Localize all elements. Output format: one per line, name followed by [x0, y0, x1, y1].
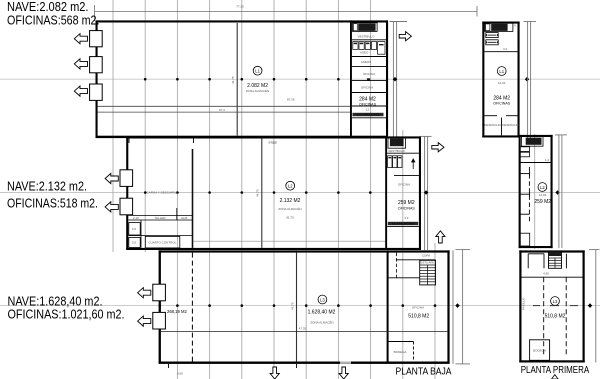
node L2 primera circle: [538, 183, 547, 192]
building L2 planta baja outline walls: [126, 136, 421, 250]
svg-text:91,75: 91,75: [286, 215, 294, 219]
svg-text:V.: V.: [514, 24, 517, 28]
svg-text:77,35: 77,35: [236, 5, 244, 9]
L2 primera bottom room: [520, 233, 530, 246]
svg-text:VESTÍBULO: VESTÍBULO: [358, 35, 376, 39]
L2 primera stair: [522, 137, 544, 147]
svg-text:ASEO: ASEO: [360, 51, 369, 55]
svg-text:259 M2: 259 M2: [534, 199, 551, 205]
L2 loading dock doors: [120, 170, 133, 215]
svg-text:87,35: 87,35: [269, 141, 277, 145]
L3 dashed mezzanine line: [191, 253, 193, 362]
L1 office aseo stalls: [353, 42, 385, 55]
svg-text:DESPACHO: DESPACHO: [484, 123, 501, 127]
L2 primera dashed corridor line: [528, 167, 530, 223]
svg-text:1.628,40 M2: 1.628,40 M2: [308, 310, 336, 316]
L3 grid dots: [159, 304, 437, 307]
L3 office floor line: [161, 331, 448, 333]
L2 primera partition: [520, 162, 553, 164]
svg-text:12: 12: [366, 108, 370, 112]
svg-text:OFICINAS:568 m2.: OFICINAS:568 m2.: [7, 13, 100, 28]
svg-text:67,3: 67,3: [219, 108, 225, 112]
L2 interior division line: [261, 139, 263, 248]
L3 interior division line: [296, 253, 298, 362]
L2 office stair: [388, 138, 406, 149]
arrow right band1: [399, 32, 411, 41]
node L3 circle label: [318, 295, 327, 304]
L3 right dimension line: [453, 250, 470, 364]
svg-text:L2: L2: [288, 184, 293, 189]
svg-text:OFICINAS:1.021,60 m2.: OFICINAS:1.021,60 m2.: [8, 307, 125, 322]
L2 office aseo stalls: [388, 156, 402, 168]
grid horizontal axis lines: [0, 79, 600, 305]
arrow up band2: [436, 231, 445, 243]
L1 primera partition: [484, 51, 517, 53]
L2 section line right: [421, 136, 432, 250]
L3 office dashed line: [395, 253, 397, 278]
svg-text:L1: L1: [255, 69, 260, 74]
L1 primera despachos: [484, 116, 517, 136]
svg-text:L1: L1: [499, 69, 504, 74]
L1 bottom wall ticks: [129, 136, 194, 143]
svg-text:L2: L2: [540, 185, 545, 190]
L1 grid dots: [144, 78, 340, 81]
L3 primera stair: [549, 251, 562, 268]
node L1 primera circle: [497, 67, 506, 76]
L1 section line right: [390, 22, 408, 139]
svg-text:PASILLO: PASILLO: [522, 297, 526, 310]
svg-text:14,04: 14,04: [539, 193, 547, 197]
dock arrows left band1: [74, 34, 87, 97]
svg-text:OFICINAS: OFICINAS: [398, 206, 416, 210]
L2 bottom-left rooms: [128, 208, 192, 248]
building L1 planta baja outline walls: [96, 20, 389, 138]
svg-text:ASEOS: ASEOS: [361, 60, 371, 64]
L2 primera small rooms: [520, 147, 530, 157]
L2 primera wall stubs: [520, 172, 530, 215]
L3 primera dashed lines: [544, 277, 567, 356]
svg-text:OFICINA: OFICINA: [363, 72, 375, 76]
L1 primera dimension line: [524, 22, 537, 139]
svg-text:NAVE:2.132 m2.: NAVE:2.132 m2.: [7, 178, 87, 193]
svg-text:3,6: 3,6: [132, 227, 137, 231]
svg-text:ZONA ALMACÉN: ZONA ALMACÉN: [278, 206, 301, 211]
L2 office sala band: [388, 222, 418, 225]
svg-text:4,50: 4,50: [543, 271, 549, 275]
L1 office partitions: [352, 40, 386, 118]
arrows down band3: [270, 367, 348, 379]
svg-text:44,75: 44,75: [231, 76, 235, 84]
svg-text:4,50: 4,50: [177, 372, 183, 376]
svg-text:OFICINA: OFICINA: [398, 182, 410, 186]
diamond marker band3: [455, 303, 459, 308]
building L3 planta baja outline walls: [159, 250, 450, 364]
diamond marker band2: [424, 190, 428, 195]
dock arrows left band2: [105, 173, 118, 212]
svg-text:284 M2: 284 M2: [493, 95, 510, 101]
svg-text:BODEGA: BODEGA: [394, 350, 407, 354]
svg-text:87,35: 87,35: [287, 98, 295, 102]
L3 office partition wall: [387, 250, 389, 361]
L3 primera tick labels on axis: [533, 305, 578, 306]
L1 interior division line: [236, 23, 238, 136]
svg-text:44,75: 44,75: [256, 189, 260, 197]
L1 primera stair: [485, 23, 513, 31]
svg-text:CARGA Y DESCARGA: CARGA Y DESCARGA: [147, 191, 178, 195]
svg-text:CUARTO CONTROL: CUARTO CONTROL: [148, 240, 176, 244]
L2 office partition wall: [385, 136, 387, 250]
svg-text:14,04: 14,04: [498, 81, 506, 85]
svg-text:L3: L3: [320, 297, 325, 302]
svg-text:PLANTA BAJA: PLANTA BAJA: [396, 366, 452, 378]
node L1 circle label: [253, 66, 262, 75]
svg-text:SALA REUNIONES: SALA REUNIONES: [357, 113, 380, 117]
svg-text:OFICINAS:518 m2.: OFICINAS:518 m2.: [7, 195, 98, 210]
node L3 primera circle: [551, 297, 560, 306]
L1 office sala reuniones band: [353, 113, 384, 116]
L3 primera interior corridor box: [528, 254, 566, 268]
L3 primera partition: [522, 276, 583, 278]
arrow right band2: [432, 143, 444, 152]
L2 office partitions: [387, 153, 419, 226]
L3 bottom wall door gap: [340, 362, 351, 364]
svg-text:259 M2: 259 M2: [398, 200, 415, 206]
L3 office upper partitions: [389, 260, 436, 278]
svg-text:1,4: 1,4: [545, 158, 550, 162]
svg-text:2.132 M2: 2.132 M2: [280, 198, 301, 204]
svg-text:OFICINAS: OFICINAS: [493, 102, 511, 106]
svg-text:COPA: COPA: [422, 253, 430, 257]
svg-text:OFICINA: OFICINA: [412, 306, 424, 310]
L1 loading dock doors: [90, 31, 103, 101]
L1 primera door symbols: [486, 33, 498, 45]
building L2 planta primera outline: [519, 135, 553, 248]
building L3 planta primera outline walls: [519, 250, 584, 362]
svg-text:3,2: 3,2: [404, 216, 409, 220]
north arrow under planta primera: [552, 375, 559, 379]
svg-text:510,8 M2: 510,8 M2: [408, 314, 429, 320]
svg-text:44,75: 44,75: [291, 302, 295, 310]
svg-text:268,19 M2: 268,19 M2: [167, 309, 187, 314]
svg-text:VESTUARIO: VESTUARIO: [418, 260, 436, 264]
L1 office partition wall: [350, 20, 352, 137]
svg-text:DESPACHO: DESPACHO: [502, 123, 519, 127]
L2 nave floor line: [194, 240, 386, 242]
L3 primera dimension line: [589, 250, 600, 363]
svg-text:3,2: 3,2: [503, 47, 508, 51]
svg-text:510,8 M2: 510,8 M2: [545, 314, 566, 320]
grid vertical column lines: [113, 0, 535, 379]
node L2 circle label: [286, 181, 295, 190]
L3 loading dock doors: [153, 284, 166, 329]
L3 primera bodega room: [530, 340, 550, 361]
svg-text:TALLER: TALLER: [154, 216, 166, 220]
svg-text:3,6: 3,6: [132, 241, 137, 245]
building L1 planta primera outline: [482, 22, 519, 138]
svg-text:ALM.: ALM.: [181, 216, 188, 220]
L2 office stair-direction arrow: [412, 159, 415, 169]
L2 heavy interior wall: [192, 149, 194, 248]
svg-text:OFICINAS: OFICINAS: [359, 102, 377, 106]
L2 grid dots: [144, 191, 372, 194]
svg-text:2,10: 2,10: [133, 216, 139, 220]
svg-text:OFICINA: OFICINA: [361, 86, 373, 90]
L3 bottom wall ticks: [169, 364, 297, 368]
L3 office bodega room: [389, 342, 414, 362]
L1 crane beam double line: [98, 106, 350, 112]
svg-text:VESTÍBULO: VESTÍBULO: [388, 149, 406, 153]
L2 primera dimension line: [555, 135, 567, 248]
dock arrows left band3: [138, 288, 151, 327]
svg-text:ZONA ALMACÉN: ZONA ALMACÉN: [246, 88, 269, 93]
diamond marker band1: [393, 77, 397, 82]
L1 top dimension line: [95, 5, 477, 21]
L1 office stair: [353, 23, 378, 32]
svg-text:BODEGA: BODEGA: [533, 349, 546, 353]
svg-text:ZONA ALMACÉN: ZONA ALMACÉN: [310, 320, 333, 325]
svg-text:SALA REUNIONES: SALA REUNIONES: [392, 222, 415, 226]
svg-text:L3: L3: [553, 299, 558, 304]
L3 office stair: [420, 260, 436, 285]
svg-text:47,35: 47,35: [299, 327, 307, 331]
